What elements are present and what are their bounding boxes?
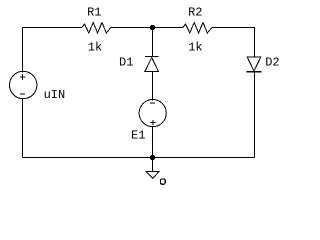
svg-text:R1: R1 — [87, 6, 101, 20]
node dot (top junction) — [150, 25, 155, 30]
node dot (bottom junction) — [150, 155, 155, 160]
voltage source uIN — [10, 71, 37, 98]
svg-text:1k: 1k — [88, 40, 102, 54]
svg-text:R2: R2 — [188, 6, 202, 20]
wire node to D1 — [152, 28, 154, 57]
wire from node dot to R2 — [153, 27, 184, 29]
ground symbol — [146, 171, 159, 178]
svg-text:1k: 1k — [188, 40, 202, 54]
diode D1 — [145, 57, 159, 72]
resistor R2 — [183, 23, 212, 34]
svg-text:E1: E1 — [131, 129, 145, 143]
wire from uIN top into circle — [22, 71, 24, 73]
svg-text:D1: D1 — [119, 56, 133, 70]
wire right side down — [254, 72, 256, 158]
wire E1 bottom to bottom junction — [152, 126, 154, 157]
wire D1 to E1 — [152, 71, 154, 99]
svg-text:D2: D2 — [265, 55, 279, 69]
diode D2 — [247, 57, 262, 72]
wire from uIN bottom to bottom wire — [22, 99, 24, 158]
resistor R1 — [82, 23, 111, 34]
wire junction to ground — [152, 158, 154, 172]
wire from R1 to node dot — [111, 27, 153, 29]
wire E1 top into circle — [152, 99, 154, 101]
bottom wire — [23, 157, 255, 159]
label 0 (ground net) — [160, 179, 165, 184]
svg-text:uIN: uIN — [44, 88, 66, 102]
wire top-right segment — [212, 28, 255, 58]
voltage source E1 — [139, 100, 166, 127]
wire top-left segment — [23, 28, 83, 72]
